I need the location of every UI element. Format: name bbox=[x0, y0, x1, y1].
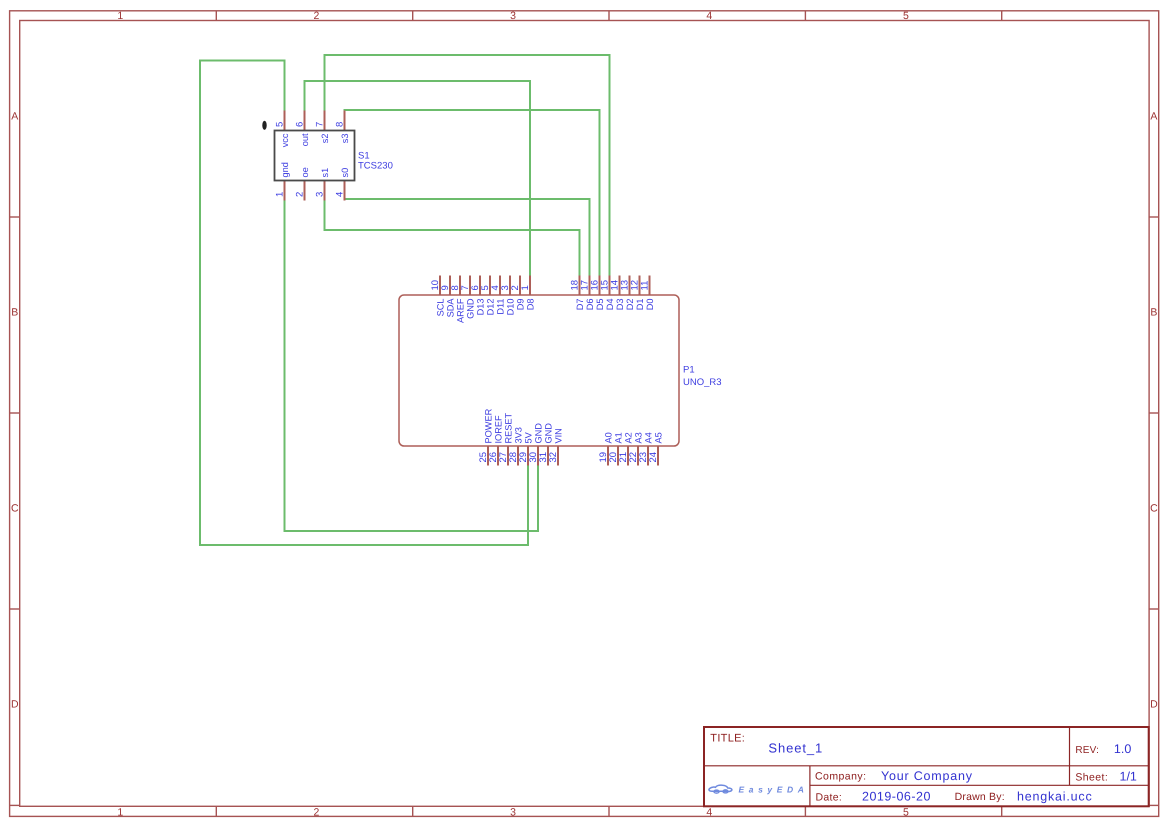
svg-text:EasyEDA: EasyEDA bbox=[739, 785, 809, 795]
svg-text:D13: D13 bbox=[475, 299, 485, 316]
svg-text:5: 5 bbox=[275, 122, 286, 127]
svg-text:3: 3 bbox=[315, 192, 326, 197]
svg-text:2: 2 bbox=[295, 192, 306, 197]
svg-text:Drawn By:: Drawn By: bbox=[955, 791, 1005, 803]
svg-text:1: 1 bbox=[520, 285, 531, 290]
svg-text:B: B bbox=[1150, 306, 1157, 318]
svg-text:VIN: VIN bbox=[553, 428, 563, 443]
svg-text:A5: A5 bbox=[653, 432, 663, 443]
svg-text:D0: D0 bbox=[645, 299, 655, 311]
svg-text:D1: D1 bbox=[635, 299, 645, 311]
svg-text:Sheet:: Sheet: bbox=[1075, 772, 1108, 784]
svg-text:5: 5 bbox=[903, 10, 909, 22]
svg-text:11: 11 bbox=[640, 281, 651, 291]
svg-text:GND: GND bbox=[465, 298, 475, 319]
svg-text:vcc: vcc bbox=[280, 133, 290, 147]
svg-text:5V: 5V bbox=[523, 431, 533, 443]
svg-text:Company:: Company: bbox=[815, 771, 866, 783]
svg-text:D6: D6 bbox=[585, 299, 595, 311]
svg-text:AREF: AREF bbox=[455, 298, 465, 323]
svg-text:hengkai.ucc: hengkai.ucc bbox=[1017, 789, 1093, 803]
svg-text:D: D bbox=[11, 698, 19, 710]
svg-text:gnd: gnd bbox=[280, 162, 290, 177]
svg-text:D8: D8 bbox=[525, 299, 535, 311]
svg-text:1: 1 bbox=[275, 192, 286, 197]
svg-text:RESET: RESET bbox=[503, 412, 513, 443]
svg-text:oe: oe bbox=[300, 167, 310, 177]
svg-text:1: 1 bbox=[117, 807, 123, 819]
svg-text:A: A bbox=[1150, 110, 1157, 122]
svg-text:D3: D3 bbox=[615, 299, 625, 311]
svg-text:GND: GND bbox=[533, 423, 543, 444]
svg-text:5: 5 bbox=[903, 807, 909, 819]
svg-text:out: out bbox=[300, 133, 310, 146]
svg-text:3: 3 bbox=[510, 10, 516, 22]
svg-text:2: 2 bbox=[313, 10, 319, 22]
svg-text:A1: A1 bbox=[613, 432, 623, 443]
svg-text:Date:: Date: bbox=[816, 791, 843, 803]
svg-text:A2: A2 bbox=[623, 432, 633, 443]
svg-text:4: 4 bbox=[706, 10, 712, 22]
svg-text:B: B bbox=[11, 306, 18, 318]
svg-text:D4: D4 bbox=[605, 299, 615, 311]
svg-text:UNO_R3: UNO_R3 bbox=[683, 377, 722, 388]
svg-text:TITLE:: TITLE: bbox=[710, 732, 745, 744]
svg-text:A: A bbox=[11, 110, 18, 122]
svg-text:4: 4 bbox=[335, 192, 346, 197]
svg-text:4: 4 bbox=[706, 807, 712, 819]
svg-text:7: 7 bbox=[315, 122, 326, 127]
svg-text:D10: D10 bbox=[505, 299, 515, 316]
svg-text:SCL: SCL bbox=[435, 299, 445, 317]
svg-text:3V3: 3V3 bbox=[513, 427, 523, 443]
svg-text:D11: D11 bbox=[495, 299, 505, 315]
svg-text:2: 2 bbox=[313, 807, 319, 819]
svg-text:s2: s2 bbox=[320, 134, 330, 144]
svg-text:IOREF: IOREF bbox=[493, 415, 503, 443]
svg-text:SDA: SDA bbox=[445, 298, 455, 318]
svg-text:D5: D5 bbox=[595, 299, 605, 311]
svg-text:2019-06-20: 2019-06-20 bbox=[862, 789, 931, 803]
svg-text:P1: P1 bbox=[683, 365, 695, 376]
svg-text:D12: D12 bbox=[485, 299, 495, 316]
svg-text:1: 1 bbox=[117, 10, 123, 22]
svg-text:Your Company: Your Company bbox=[881, 769, 973, 783]
svg-text:s1: s1 bbox=[320, 168, 330, 178]
svg-text:C: C bbox=[1150, 502, 1158, 514]
svg-text:TCS230: TCS230 bbox=[358, 161, 393, 172]
svg-text:A4: A4 bbox=[643, 432, 653, 443]
svg-text:1.0: 1.0 bbox=[1114, 742, 1131, 756]
svg-text:D: D bbox=[1150, 698, 1158, 710]
svg-text:8: 8 bbox=[335, 122, 346, 127]
svg-text:D2: D2 bbox=[625, 299, 635, 311]
svg-text:D7: D7 bbox=[575, 299, 585, 311]
svg-text:GND: GND bbox=[543, 423, 553, 444]
svg-text:3: 3 bbox=[510, 807, 516, 819]
svg-text:C: C bbox=[11, 502, 19, 514]
svg-text:s0: s0 bbox=[340, 168, 350, 178]
svg-text:POWER: POWER bbox=[483, 408, 493, 443]
svg-text:D9: D9 bbox=[515, 299, 525, 311]
svg-text:A0: A0 bbox=[603, 432, 613, 443]
svg-text:A3: A3 bbox=[633, 432, 643, 443]
svg-text:24: 24 bbox=[648, 452, 659, 463]
svg-text:32: 32 bbox=[548, 452, 559, 463]
svg-text:Sheet_1: Sheet_1 bbox=[768, 740, 823, 755]
svg-text:1/1: 1/1 bbox=[1120, 770, 1137, 784]
svg-text:s3: s3 bbox=[340, 134, 350, 144]
svg-text:6: 6 bbox=[295, 122, 306, 127]
svg-text:REV:: REV: bbox=[1075, 745, 1099, 756]
